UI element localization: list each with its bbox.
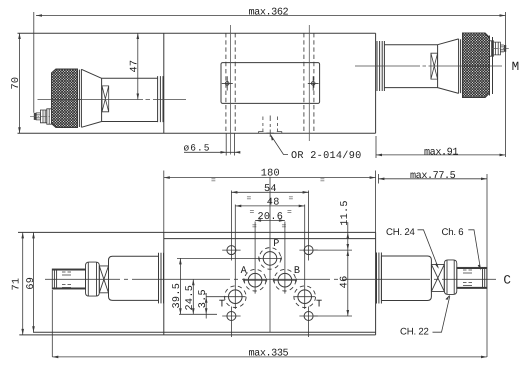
svg-text:=: = [282,223,287,232]
svg-text:CH. 24: CH. 24 [386,227,416,238]
right stem nut [494,42,501,55]
bolt hole top-right [299,246,317,255]
svg-text:=: = [211,177,216,186]
svg-text:70: 70 [11,77,22,90]
hole centerline left [230,25,232,155]
knob flange [158,76,163,122]
right stem collar [490,41,494,56]
T level extension line [204,294,226,297]
dimension 39.5 [179,258,182,314]
svg-text:=: = [320,177,325,186]
dimension max.335 [52,290,487,358]
bolt hole bottom-right [299,312,317,321]
dimension 71 [21,232,24,335]
knob cone [81,69,101,127]
dimension 11.5 [347,222,350,250]
P level shelf line [177,257,261,259]
port A [243,269,267,291]
svg-text:=: = [247,195,252,204]
stem thread [36,113,40,120]
svg-text:ø6.5: ø6.5 [184,143,211,154]
svg-text:=: = [252,223,257,232]
right knurl rim band [459,39,463,94]
svg-text:T: T [219,299,225,310]
stem nut [40,110,46,123]
hidden hole left (dashed) [226,33,235,133]
left device body tube [109,256,159,300]
dimension 46 [347,250,350,316]
top view body block [18,33,376,133]
dimension max.77.5 [378,174,487,357]
dimension 70 [18,33,21,133]
right stem tip [504,45,506,52]
left device locknut [86,262,100,296]
adjusting screw box [102,86,109,112]
bolt hole top-left [222,246,240,255]
bolt row extensions right [314,250,352,316]
dimension 47 [137,33,140,100]
svg-text:OR 2-014/90: OR 2-014/90 [291,150,362,162]
svg-text:=: = [250,208,255,217]
dimension 69 [32,232,35,332]
right knob sleeve [384,45,437,88]
dimension 48 [235,205,304,208]
svg-text:180: 180 [261,169,280,180]
svg-text:69: 69 [26,277,37,290]
svg-text:46: 46 [340,275,351,288]
stem centerline [30,115,51,117]
svg-text:M: M [512,60,520,74]
knob axis centerline [38,99,187,101]
svg-text:max.91: max.91 [424,147,458,158]
svg-text:P: P [273,239,279,250]
hidden hole right (dashed) [304,33,314,133]
knurl rim band [78,69,82,128]
right knurl split line [463,65,490,67]
svg-text:B: B [294,266,300,277]
main horizontal centerline [45,278,496,280]
svg-text:=: = [289,195,294,204]
svg-text:A: A [241,266,248,277]
stem collar [47,109,52,124]
knurl split line [52,99,82,101]
OR leader line [271,136,288,155]
right device body tube [381,256,431,301]
port T left [225,286,247,308]
right knob flange [377,41,384,91]
dimension 20.6 [255,219,285,222]
dimension max.362 [34,12,506,157]
knob stem tip [34,113,36,120]
knob sleeve [102,78,158,121]
right knurl edge arcs [490,36,493,96]
svg-text:=: = [287,208,292,217]
svg-text:48: 48 [267,198,280,209]
svg-text:24.5: 24.5 [185,285,196,311]
svg-text:3.5: 3.5 [198,289,209,308]
svg-text:Ch. 6: Ch. 6 [442,227,464,238]
right adjusting screw box [431,53,438,79]
P column line [269,177,271,332]
top view pocket rectangle [221,63,320,104]
O-ring hidden mark [259,116,282,138]
right stem thread [500,45,504,52]
svg-text:CH. 22: CH. 22 [400,327,429,338]
bolt column lines [231,191,308,338]
A B column lines [255,222,285,294]
right knob knurl [463,33,490,98]
right device locknut [444,260,457,295]
port B [273,269,297,291]
dimension diameter 6.5 [184,133,240,155]
target marker right [308,76,319,90]
svg-text:47: 47 [129,60,140,73]
svg-text:39.5: 39.5 [172,283,183,309]
dimension 180 [164,171,376,233]
dimension max.91 [376,136,506,158]
lower reference extension line [179,313,217,315]
port P [258,248,282,270]
target marker left [222,76,233,90]
svg-text:T: T [316,299,322,310]
left device stem [52,269,85,289]
svg-text:C: C [503,273,511,287]
dimension 3.5 [205,293,208,319]
knob knurl [52,69,78,128]
svg-text:max.77.5: max.77.5 [410,171,456,182]
bottom view body block [18,232,376,335]
hole centerline right [308,25,310,141]
right knob cone [438,39,459,94]
right knob axis centerline [355,65,502,67]
right device stem [457,267,487,288]
svg-text:54: 54 [264,184,277,195]
right device flange [377,253,382,304]
right stem centerline [492,47,510,49]
svg-text:71: 71 [11,278,22,291]
svg-text:max.362: max.362 [249,7,289,18]
svg-text:max.335: max.335 [249,348,289,359]
right device screw box [431,264,444,291]
T column lines [235,205,304,310]
port T right [294,286,316,308]
left device flange [159,253,164,304]
svg-text:20.6: 20.6 [258,212,284,223]
bolt hole bottom-left [222,312,240,321]
dimension 54 [231,191,308,194]
dimension 24.5 [192,279,195,314]
left device screw box [99,266,108,293]
svg-text:11.5: 11.5 [340,200,351,226]
